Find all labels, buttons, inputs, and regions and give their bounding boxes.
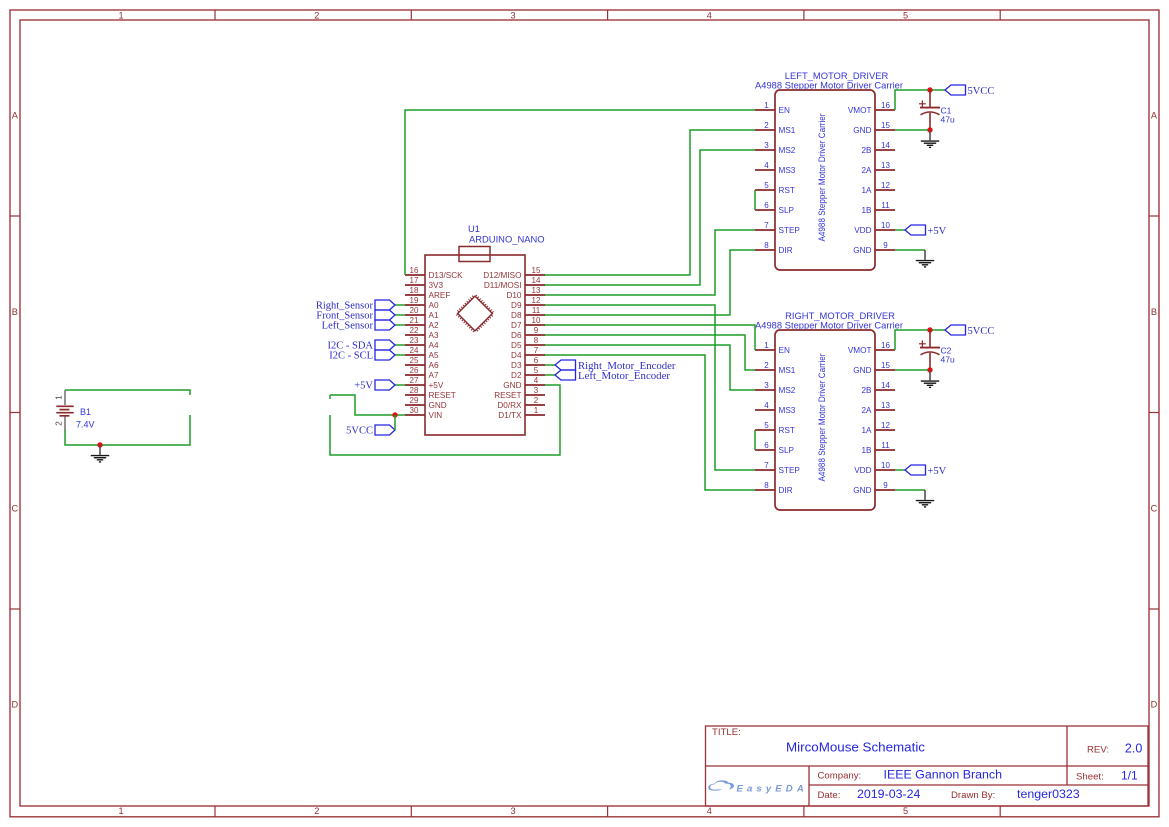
wire Front_Sensor to pin <box>395 314 405 316</box>
svg-text:D0/RX: D0/RX <box>497 401 522 410</box>
svg-text:22: 22 <box>410 326 419 335</box>
svg-text:VMOT: VMOT <box>848 106 872 115</box>
svg-text:AREF: AREF <box>429 291 451 300</box>
U1 pin 26 (A7) <box>405 366 439 380</box>
svg-text:3V3: 3V3 <box>429 281 444 290</box>
svg-text:5: 5 <box>764 421 769 430</box>
svg-text:GND: GND <box>503 381 521 390</box>
U1 pin 23 (A4) <box>405 336 439 350</box>
svg-text:1: 1 <box>118 11 123 21</box>
U1 pin 17 (3V3) <box>405 276 444 290</box>
wire D7 to right EN <box>545 325 755 350</box>
ground right driver pin9 <box>916 490 934 507</box>
svg-text:A3: A3 <box>429 331 439 340</box>
U2 LEFT_MOTOR_DRIVER pin 12 (1A) <box>861 181 895 195</box>
svg-text:D4: D4 <box>511 351 522 360</box>
svg-text:15: 15 <box>881 121 890 130</box>
svg-text:A2: A2 <box>429 321 439 330</box>
svg-text:B: B <box>1151 307 1157 317</box>
wire D5 to right MS2 <box>545 345 755 390</box>
wire right VMOT to 5VCC <box>895 330 945 350</box>
svg-text:RST: RST <box>779 186 795 195</box>
svg-text:A: A <box>12 111 19 121</box>
svg-text:47u: 47u <box>941 355 955 365</box>
junction right 5VCC <box>927 327 932 332</box>
junction battery gnd <box>97 442 102 447</box>
svg-text:23: 23 <box>410 336 419 345</box>
svg-text:4: 4 <box>707 11 712 21</box>
svg-text:5: 5 <box>903 11 908 21</box>
U1 pin 6 (D3) <box>511 356 545 370</box>
U1 pin 30 (VIN) <box>405 406 442 420</box>
svg-text:DIR: DIR <box>779 486 793 495</box>
svg-text:D: D <box>1151 700 1158 710</box>
svg-text:9: 9 <box>883 241 888 250</box>
svg-text:LEFT_MOTOR_DRIVER: LEFT_MOTOR_DRIVER <box>785 70 889 81</box>
svg-text:C: C <box>1151 503 1158 513</box>
svg-text:1B: 1B <box>861 446 872 455</box>
capacitor C1 <box>919 90 940 130</box>
wire I2C - SCL to pin <box>395 354 405 356</box>
wire 5VCC stub end tick <box>329 395 331 399</box>
svg-text:D9: D9 <box>511 301 522 310</box>
svg-text:STEP: STEP <box>779 226 801 235</box>
svg-text:VDD: VDD <box>854 466 871 475</box>
wire battery positive <box>65 390 190 395</box>
U3 RIGHT_MOTOR_DRIVER pin 13 (2A) <box>861 401 895 415</box>
svg-text:VDD: VDD <box>854 226 871 235</box>
U1 pin 29 (GND) <box>405 396 447 410</box>
svg-text:15: 15 <box>532 266 541 275</box>
svg-text:D13/SCK: D13/SCK <box>429 271 464 280</box>
svg-text:18: 18 <box>410 286 419 295</box>
A4988 stepper driver U3 RIGHT_MOTOR_DRIVER body <box>775 330 875 510</box>
svg-text:RESET: RESET <box>429 391 456 400</box>
svg-text:MS1: MS1 <box>779 126 796 135</box>
svg-text:11: 11 <box>881 441 890 450</box>
svg-text:DIR: DIR <box>779 246 793 255</box>
svg-text:VIN: VIN <box>429 411 443 420</box>
U1 pin 18 (AREF) <box>405 286 450 300</box>
svg-text:RST: RST <box>779 426 795 435</box>
svg-text:28: 28 <box>410 386 419 395</box>
U2 LEFT_MOTOR_DRIVER pin 2 (MS1) <box>755 121 796 135</box>
svg-text:5: 5 <box>764 181 769 190</box>
svg-text:2: 2 <box>534 396 539 405</box>
svg-text:EN: EN <box>779 346 790 355</box>
wire right RST-SLP jumper <box>754 430 756 450</box>
U2 LEFT_MOTOR_DRIVER pin 11 (1B) <box>861 201 895 215</box>
svg-text:6: 6 <box>534 356 539 365</box>
svg-text:3: 3 <box>534 386 539 395</box>
ground left driver pin9 <box>916 250 934 267</box>
U3 RIGHT_MOTOR_DRIVER pin 16 (VMOT) <box>848 341 895 355</box>
U2 LEFT_MOTOR_DRIVER pin 1 (EN) <box>755 101 790 115</box>
U1 pin 15 (D12/MISO) <box>483 266 545 280</box>
svg-text:5VCC: 5VCC <box>968 86 995 97</box>
svg-text:A4: A4 <box>429 341 439 350</box>
wire D11/MOSI to left MS2 <box>545 150 755 285</box>
wire D2 to Left_Motor_Encoder <box>545 374 555 376</box>
U1 pin 9 (D6) <box>511 326 545 340</box>
svg-text:5VCC: 5VCC <box>968 326 995 337</box>
net flag 5VCC left <box>945 85 966 95</box>
wire D12/MISO to left MS1 <box>545 130 755 275</box>
U1 pin 22 (A3) <box>405 326 439 340</box>
svg-text:14: 14 <box>532 276 541 285</box>
svg-text:17: 17 <box>410 276 419 285</box>
svg-text:Company:: Company: <box>818 771 862 782</box>
svg-text:27: 27 <box>410 376 419 385</box>
net flag I2C - SCL <box>375 350 395 360</box>
svg-text:20: 20 <box>410 306 419 315</box>
junction left cap gnd <box>927 127 932 132</box>
svg-text:7.4V: 7.4V <box>76 420 95 430</box>
U2 LEFT_MOTOR_DRIVER pin 5 (RST) <box>755 181 795 195</box>
U3 RIGHT_MOTOR_DRIVER pin 11 (1B) <box>861 441 895 455</box>
svg-text:D12/MISO: D12/MISO <box>483 271 521 280</box>
svg-text:REV:: REV: <box>1087 744 1109 755</box>
U3 RIGHT_MOTOR_DRIVER pin 12 (1A) <box>861 421 895 435</box>
svg-text:Left_Sensor: Left_Sensor <box>322 321 374 332</box>
svg-text:10: 10 <box>881 221 890 230</box>
svg-text:21: 21 <box>410 316 419 325</box>
U1 QFP chip icon <box>458 296 493 331</box>
U2 LEFT_MOTOR_DRIVER pin 10 (VDD) <box>854 221 895 235</box>
svg-text:A6: A6 <box>429 361 439 370</box>
wire +5V to pin27 <box>395 384 405 386</box>
svg-text:I2C - SCL: I2C - SCL <box>329 351 373 362</box>
svg-text:6: 6 <box>764 441 769 450</box>
net flag I2C - SDA <box>375 340 395 350</box>
svg-text:D5: D5 <box>511 341 522 350</box>
svg-text:12: 12 <box>881 181 890 190</box>
wire arduino GND loop <box>330 385 560 455</box>
svg-text:2B: 2B <box>861 386 872 395</box>
svg-text:+5V: +5V <box>354 381 373 392</box>
svg-text:1: 1 <box>55 395 64 400</box>
U2 LEFT_MOTOR_DRIVER pin 13 (2A) <box>861 161 895 175</box>
svg-text:5: 5 <box>534 366 539 375</box>
U1 pin 28 (RESET) <box>405 386 456 400</box>
svg-text:5VCC: 5VCC <box>346 426 373 437</box>
U1 pin 14 (D11/MOSI) <box>484 276 545 290</box>
net flag 5VCC right <box>945 325 966 335</box>
svg-text:B1: B1 <box>80 407 91 417</box>
svg-text:D3: D3 <box>511 361 522 370</box>
U1 pin 2 (D0/RX) <box>497 396 545 410</box>
wire left GND15 <box>895 129 930 131</box>
U2 LEFT_MOTOR_DRIVER pin 14 (2B) <box>861 141 895 155</box>
U3 RIGHT_MOTOR_DRIVER pin 6 (SLP) <box>755 441 795 455</box>
wire D10 to left STEP <box>545 230 755 295</box>
U3 RIGHT_MOTOR_DRIVER pin 8 (DIR) <box>755 481 793 495</box>
svg-text:A4988 Stepper Motor Driver Car: A4988 Stepper Motor Driver Carrier <box>755 81 903 91</box>
svg-text:30: 30 <box>410 406 419 415</box>
junction left 5VCC <box>927 87 932 92</box>
svg-text:STEP: STEP <box>779 466 801 475</box>
svg-text:GND: GND <box>429 401 447 410</box>
svg-text:4: 4 <box>764 401 769 410</box>
svg-text:8: 8 <box>764 481 769 490</box>
svg-text:8: 8 <box>534 336 539 345</box>
U3 RIGHT_MOTOR_DRIVER pin 3 (MS2) <box>755 381 796 395</box>
U3 RIGHT_MOTOR_DRIVER pin 5 (RST) <box>755 421 795 435</box>
svg-text:2: 2 <box>55 421 64 426</box>
svg-text:MS3: MS3 <box>779 406 796 415</box>
U1 pin 19 (A0) <box>405 296 439 310</box>
svg-text:1: 1 <box>764 341 769 350</box>
junction VIN 5VCC <box>392 412 397 417</box>
U2 LEFT_MOTOR_DRIVER pin 9 (GND) <box>853 241 895 255</box>
svg-text:2: 2 <box>314 806 319 816</box>
svg-text:24: 24 <box>410 346 419 355</box>
svg-text:12: 12 <box>881 421 890 430</box>
U1 pin 3 (RESET) <box>494 386 545 400</box>
svg-text:4: 4 <box>534 376 539 385</box>
title block <box>706 726 1149 806</box>
EasyEDA logo <box>708 780 808 794</box>
svg-text:Left_Motor_Encoder: Left_Motor_Encoder <box>578 370 670 382</box>
svg-text:1B: 1B <box>861 206 872 215</box>
svg-text:C: C <box>11 503 18 513</box>
wire D9 to right STEP <box>545 305 755 470</box>
net flag +5V right <box>905 465 926 475</box>
svg-text:EN: EN <box>779 106 790 115</box>
svg-text:2.0: 2.0 <box>1125 741 1142 755</box>
svg-text:A4988 Stepper Motor Driver Car: A4988 Stepper Motor Driver Carrier <box>755 321 903 331</box>
ground under C2 <box>921 371 939 388</box>
U3 RIGHT_MOTOR_DRIVER pin 1 (EN) <box>755 341 790 355</box>
wire left GND9 <box>895 249 925 251</box>
svg-text:D11/MOSI: D11/MOSI <box>484 281 522 290</box>
U1 pin 13 (D10) <box>506 286 545 300</box>
svg-text:2A: 2A <box>861 406 872 415</box>
svg-text:10: 10 <box>881 461 890 470</box>
svg-text:1: 1 <box>764 101 769 110</box>
wire D8 to left DIR <box>545 250 755 315</box>
net flag Right_Motor_Encoder <box>555 360 576 370</box>
net flag Left_Motor_Encoder <box>555 370 576 380</box>
svg-text:11: 11 <box>532 306 541 315</box>
svg-text:9: 9 <box>883 481 888 490</box>
svg-text:26: 26 <box>410 366 419 375</box>
svg-text:47u: 47u <box>941 115 955 125</box>
svg-text:1A: 1A <box>861 186 872 195</box>
svg-text:29: 29 <box>410 396 419 405</box>
svg-text:TITLE:: TITLE: <box>712 727 741 738</box>
svg-text:SLP: SLP <box>779 446 795 455</box>
Arduino Nano U1 body <box>425 247 525 436</box>
svg-text:D7: D7 <box>511 321 522 330</box>
svg-text:Date:: Date: <box>818 790 841 801</box>
U1 pin 16 (D13/SCK) <box>405 266 463 280</box>
svg-text:2: 2 <box>764 121 769 130</box>
wire I2C - SDA to pin <box>395 344 405 346</box>
svg-text:4: 4 <box>707 806 712 816</box>
wire Left_Sensor to pin <box>395 324 405 326</box>
net flag 5VCC arduino <box>375 425 395 435</box>
svg-text:14: 14 <box>881 141 890 150</box>
svg-text:7: 7 <box>764 461 769 470</box>
U1 pin 12 (D9) <box>511 296 545 310</box>
svg-text:RIGHT_MOTOR_DRIVER: RIGHT_MOTOR_DRIVER <box>785 310 895 321</box>
svg-text:19: 19 <box>410 296 419 305</box>
wire left VDD to +5V <box>895 229 905 231</box>
svg-text:13: 13 <box>881 401 890 410</box>
net flag +5V left <box>905 225 926 235</box>
svg-text:VMOT: VMOT <box>848 346 872 355</box>
U2 LEFT_MOTOR_DRIVER pin 6 (SLP) <box>755 201 795 215</box>
U1 pin 21 (A2) <box>405 316 439 330</box>
wire 5VCC to VIN <box>330 395 405 415</box>
svg-text:MircoMouse Schematic: MircoMouse Schematic <box>786 740 926 755</box>
svg-text:6: 6 <box>764 201 769 210</box>
svg-text:3: 3 <box>764 381 769 390</box>
U1 pin 8 (D5) <box>511 336 545 350</box>
wire left RST-SLP jumper <box>754 190 756 210</box>
U3 RIGHT_MOTOR_DRIVER pin 2 (MS1) <box>755 361 796 375</box>
ground under C1 <box>921 131 939 148</box>
svg-text:2019-03-24: 2019-03-24 <box>857 787 920 801</box>
svg-text:3: 3 <box>764 141 769 150</box>
junction right cap gnd <box>927 367 932 372</box>
svg-text:A4988 Stepper Motor Driver Car: A4988 Stepper Motor Driver Carrier <box>817 354 827 482</box>
U1 pin 27 (+5V) <box>405 376 444 390</box>
svg-text:1: 1 <box>118 806 123 816</box>
svg-text:8: 8 <box>764 241 769 250</box>
svg-text:5: 5 <box>903 806 908 816</box>
svg-text:13: 13 <box>532 286 541 295</box>
U2 LEFT_MOTOR_DRIVER pin 3 (MS2) <box>755 141 796 155</box>
svg-text:16: 16 <box>410 266 419 275</box>
svg-text:GND: GND <box>853 126 871 135</box>
svg-text:13: 13 <box>881 161 890 170</box>
svg-text:MS2: MS2 <box>779 386 796 395</box>
battery B1 <box>56 390 73 430</box>
U1 pin 20 (A1) <box>405 306 439 320</box>
wire left VMOT to 5VCC <box>895 90 945 110</box>
svg-text:2: 2 <box>764 361 769 370</box>
wire D4 to right DIR <box>545 355 755 490</box>
U1 pin 7 (D4) <box>511 346 545 360</box>
svg-text:Drawn By:: Drawn By: <box>951 790 995 801</box>
net flag +5V arduino <box>375 380 395 390</box>
U1 pin 4 (GND) <box>503 376 545 390</box>
svg-text:GND: GND <box>853 486 871 495</box>
svg-text:GND: GND <box>853 366 871 375</box>
svg-text:7: 7 <box>534 346 539 355</box>
wire right GND15 <box>895 369 930 371</box>
U2 LEFT_MOTOR_DRIVER pin 8 (DIR) <box>755 241 793 255</box>
svg-text:16: 16 <box>881 341 890 350</box>
U1 pin 11 (D8) <box>511 306 545 320</box>
svg-text:2: 2 <box>314 11 319 21</box>
U3 RIGHT_MOTOR_DRIVER pin 15 (GND) <box>853 361 895 375</box>
capacitor C2 <box>919 330 940 370</box>
svg-text:2B: 2B <box>861 146 872 155</box>
svg-text:+5V: +5V <box>928 466 947 477</box>
U2 LEFT_MOTOR_DRIVER pin 16 (VMOT) <box>848 101 895 115</box>
svg-text:A4988 Stepper Motor Driver Car: A4988 Stepper Motor Driver Carrier <box>817 114 827 242</box>
svg-text:RESET: RESET <box>494 391 521 400</box>
svg-text:3: 3 <box>510 806 515 816</box>
wire right GND9 <box>895 489 925 491</box>
svg-text:A0: A0 <box>429 301 439 310</box>
ground battery <box>91 445 109 462</box>
svg-text:7: 7 <box>764 221 769 230</box>
svg-text:D1/TX: D1/TX <box>498 411 522 420</box>
svg-text:D2: D2 <box>511 371 522 380</box>
svg-text:D: D <box>11 700 18 710</box>
wire right VDD to +5V <box>895 469 905 471</box>
U1 pin 25 (A6) <box>405 356 439 370</box>
wire D6 to right MS1 <box>545 335 755 370</box>
svg-text:tenger0323: tenger0323 <box>1017 787 1080 801</box>
svg-text:15: 15 <box>881 361 890 370</box>
net flag Left_Sensor <box>375 320 395 330</box>
svg-text:10: 10 <box>532 316 541 325</box>
svg-text:A: A <box>1151 111 1158 121</box>
svg-text:1: 1 <box>534 406 539 415</box>
svg-text:1A: 1A <box>861 426 872 435</box>
U3 RIGHT_MOTOR_DRIVER pin 7 (STEP) <box>755 461 800 475</box>
U1 pin 5 (D2) <box>511 366 545 380</box>
svg-text:D8: D8 <box>511 311 522 320</box>
svg-text:SLP: SLP <box>779 206 795 215</box>
svg-text:GND: GND <box>853 246 871 255</box>
U1 pin 10 (D7) <box>511 316 545 330</box>
U2 LEFT_MOTOR_DRIVER pin 15 (GND) <box>853 121 895 135</box>
svg-text:2A: 2A <box>861 166 872 175</box>
svg-text:A1: A1 <box>429 311 439 320</box>
net flag Front_Sensor <box>375 310 395 320</box>
svg-text:3: 3 <box>510 11 515 21</box>
U2 LEFT_MOTOR_DRIVER pin 7 (STEP) <box>755 221 800 235</box>
svg-text:11: 11 <box>881 201 890 210</box>
svg-text:B: B <box>12 307 18 317</box>
wire D3 to Right_Motor_Encoder <box>545 364 555 366</box>
svg-text:1/1: 1/1 <box>1121 769 1138 783</box>
svg-text:A7: A7 <box>429 371 439 380</box>
wire VIN junction to 5VCC flag <box>394 415 396 430</box>
svg-text:MS1: MS1 <box>779 366 796 375</box>
svg-text:9: 9 <box>534 326 539 335</box>
svg-text:D10: D10 <box>506 291 521 300</box>
svg-text:U1: U1 <box>468 223 480 234</box>
U3 RIGHT_MOTOR_DRIVER pin 10 (VDD) <box>854 461 895 475</box>
svg-text:14: 14 <box>881 381 890 390</box>
svg-text:4: 4 <box>764 161 769 170</box>
wire D13/SCK to left EN <box>405 110 755 275</box>
svg-text:12: 12 <box>532 296 541 305</box>
net flag Right_Sensor <box>375 300 395 310</box>
svg-text:MS2: MS2 <box>779 146 796 155</box>
svg-text:+5V: +5V <box>429 381 444 390</box>
svg-text:+5V: +5V <box>928 226 947 237</box>
svg-text:A5: A5 <box>429 351 439 360</box>
wire battery negative <box>65 415 190 445</box>
U2 LEFT_MOTOR_DRIVER pin 4 (MS3) <box>755 161 796 175</box>
U3 RIGHT_MOTOR_DRIVER pin 4 (MS3) <box>755 401 796 415</box>
U1 pin 24 (A5) <box>405 346 439 360</box>
U3 RIGHT_MOTOR_DRIVER pin 9 (GND) <box>853 481 895 495</box>
U1 pin 1 (D1/TX) <box>498 406 545 420</box>
svg-text:25: 25 <box>410 356 419 365</box>
svg-text:ARDUINO_NANO: ARDUINO_NANO <box>469 234 545 245</box>
svg-text:IEEE Gannon Branch: IEEE Gannon Branch <box>884 768 1003 782</box>
svg-text:16: 16 <box>881 101 890 110</box>
